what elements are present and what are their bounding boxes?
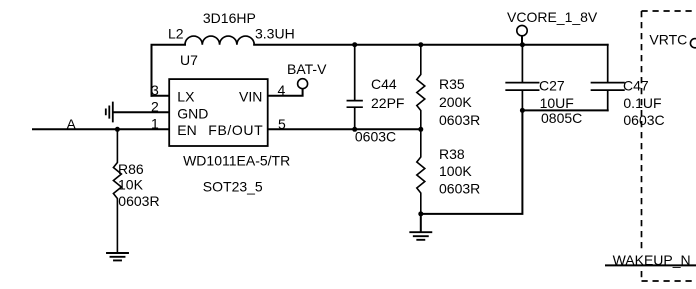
svg-text:5: 5	[278, 116, 286, 132]
dashed sheet border bottom	[642, 280, 696, 282]
wire WAKEUP_N	[606, 264, 696, 266]
svg-text:3D16HP: 3D16HP	[203, 10, 256, 26]
svg-text:0603R: 0603R	[118, 193, 159, 209]
resistor R35	[417, 45, 425, 130]
svg-text:A: A	[67, 116, 77, 132]
svg-text:22PF: 22PF	[371, 95, 404, 111]
resistor R38	[417, 129, 425, 214]
svg-text:EN: EN	[177, 122, 196, 138]
junction C44 top	[352, 42, 357, 47]
dashed sheet border left lower	[641, 271, 643, 281]
junction R35 top	[418, 42, 423, 47]
svg-text:3.3UH: 3.3UH	[255, 25, 295, 41]
wire pin 4 to BAT-V	[268, 89, 303, 96]
wire node A	[33, 128, 169, 130]
inductor L2	[185, 36, 254, 45]
svg-text:2: 2	[151, 99, 159, 115]
svg-text:10UF: 10UF	[540, 95, 574, 111]
svg-text:WD1011EA-5/TR: WD1011EA-5/TR	[183, 153, 290, 169]
svg-text:4: 4	[278, 82, 286, 98]
capacitor C44	[347, 45, 362, 130]
BAT-V terminal circle	[298, 79, 308, 89]
junction VCORE rail	[520, 42, 525, 47]
wire R38 to ground	[420, 214, 422, 232]
svg-text:VIN: VIN	[239, 89, 262, 105]
svg-text:0603R: 0603R	[439, 112, 480, 128]
junction C44 bottom	[352, 127, 357, 132]
svg-text:VRTC: VRTC	[649, 32, 687, 48]
svg-text:0.1UF: 0.1UF	[623, 95, 661, 111]
svg-text:R35: R35	[439, 76, 465, 92]
svg-text:3: 3	[151, 82, 159, 98]
svg-text:100K: 100K	[439, 163, 472, 179]
svg-text:BAT-V: BAT-V	[287, 61, 327, 77]
svg-text:0603R: 0603R	[439, 180, 480, 196]
ground (rotated, pin 2)	[106, 103, 113, 122]
junction C27 bottom	[520, 108, 525, 113]
junction R38 bottom	[418, 211, 423, 216]
svg-text:1: 1	[151, 116, 159, 132]
svg-text:200K: 200K	[439, 94, 472, 110]
svg-text:U7: U7	[180, 52, 198, 68]
wire R38 bottom to C27 branch	[421, 110, 523, 213]
wire top-left corner from LX up to inductor	[152, 45, 186, 96]
svg-text:0603C: 0603C	[623, 112, 664, 128]
svg-text:GND: GND	[177, 106, 208, 122]
svg-text:WAKEUP_N: WAKEUP_N	[613, 252, 691, 268]
junction R35/R38	[418, 127, 423, 132]
svg-text:R38: R38	[439, 146, 465, 162]
svg-text:SOT23_5: SOT23_5	[203, 179, 263, 195]
VCORE_1_8V terminal circle	[517, 25, 527, 35]
capacitor C27	[506, 45, 538, 111]
svg-text:C47: C47	[623, 78, 649, 94]
wire pin 5 FB/OUT	[268, 128, 421, 130]
svg-text:LX: LX	[177, 89, 195, 105]
svg-text:C44: C44	[371, 76, 397, 92]
svg-text:FB/OUT: FB/OUT	[208, 122, 263, 138]
wire VCORE stub	[521, 36, 523, 45]
wire C27-C47 bottom loop	[522, 109, 607, 111]
svg-text:L2: L2	[168, 26, 184, 42]
dashed sheet border top	[642, 10, 696, 12]
ground (below R38)	[410, 232, 431, 240]
dashed sheet border left	[641, 11, 643, 250]
svg-text:R86: R86	[118, 161, 144, 177]
svg-text:0805C: 0805C	[541, 110, 582, 126]
capacitor C47	[592, 45, 624, 111]
wire pin 2	[113, 111, 169, 113]
op-amp U7 box	[169, 79, 268, 146]
wire top rail	[254, 44, 608, 46]
svg-text:C27: C27	[539, 77, 565, 93]
wire pin 3	[152, 95, 169, 97]
resistor R86	[113, 129, 121, 252]
svg-text:10K: 10K	[118, 177, 144, 193]
junction node A	[115, 127, 120, 132]
VRTC terminal circle	[690, 39, 696, 48]
svg-text:VCORE_1_8V: VCORE_1_8V	[507, 9, 598, 25]
svg-text:0603C: 0603C	[355, 128, 396, 144]
ground (below R86)	[107, 253, 128, 260]
